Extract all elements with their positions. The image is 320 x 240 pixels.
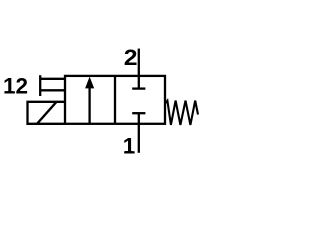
blocked port T bottom (right position) <box>132 113 145 124</box>
flow arrow (left position) <box>85 77 94 124</box>
port 1 stub (wire) <box>138 124 140 153</box>
port 2 stub (wire) <box>138 49 140 76</box>
position divider <box>114 76 116 124</box>
svg-text:12: 12 <box>3 73 28 98</box>
pilot label 12 <box>3 73 28 98</box>
svg-text:2: 2 <box>124 46 138 71</box>
blocked port T top (right position) <box>132 76 145 89</box>
pilot port 12 bracket <box>40 75 65 96</box>
solenoid coil <box>28 102 66 124</box>
valve body (two position boxes) <box>65 76 165 124</box>
svg-text:1: 1 <box>123 134 136 159</box>
spring return <box>165 101 198 125</box>
port 1 label <box>123 134 136 159</box>
